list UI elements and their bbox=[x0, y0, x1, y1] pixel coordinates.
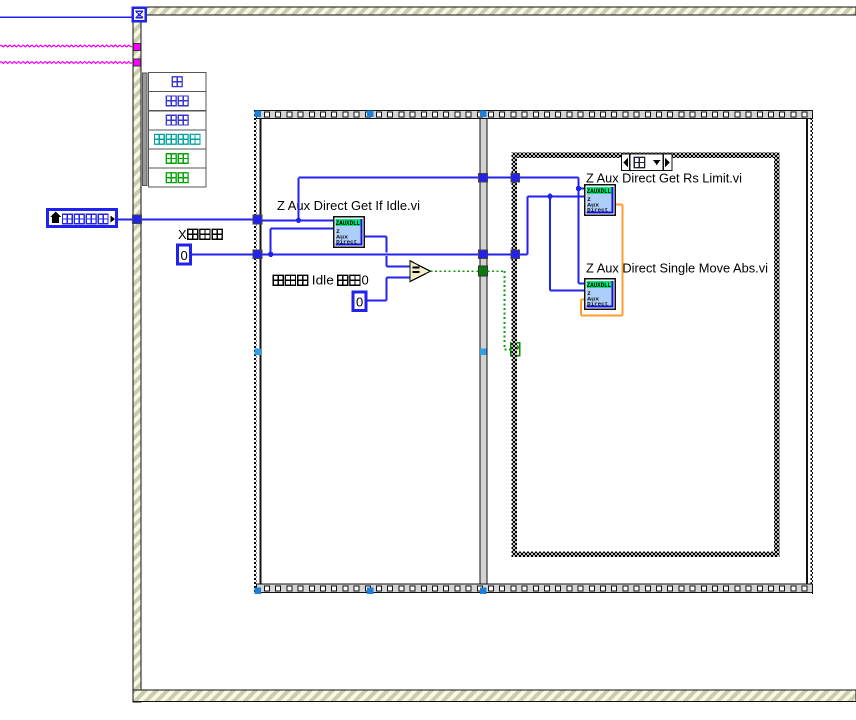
svg-text:Z Aux Direct Single Move Abs.v: Z Aux Direct Single Move Abs.vi bbox=[586, 261, 768, 276]
svg-text:0: 0 bbox=[181, 248, 188, 263]
svg-text:0: 0 bbox=[362, 272, 369, 287]
svg-text:Z Aux Direct Get Rs Limit.vi: Z Aux Direct Get Rs Limit.vi bbox=[586, 170, 742, 185]
svg-text:0: 0 bbox=[356, 295, 363, 310]
svg-text:X: X bbox=[178, 227, 187, 242]
svg-text:Idle: Idle bbox=[312, 272, 334, 287]
